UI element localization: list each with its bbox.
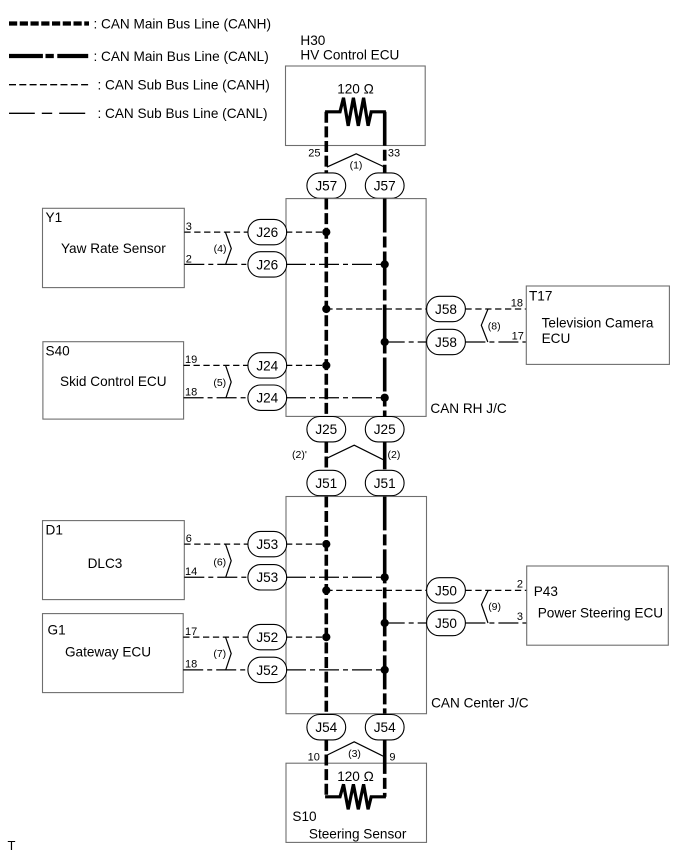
connector J52 (CANH) <box>248 624 287 649</box>
svg-text:CAN Center J/C: CAN Center J/C <box>431 695 529 710</box>
svg-text:S10: S10 <box>292 809 317 824</box>
connector J54 (CANH) <box>307 715 346 740</box>
svg-text:14: 14 <box>185 566 197 578</box>
connector J51 (CANH) <box>307 470 346 495</box>
wire CANH main bus J25 to J51 <box>324 442 328 469</box>
wire CANH sub J58 to T17 pin18 <box>465 308 526 310</box>
svg-text:Steering Sensor: Steering Sensor <box>309 826 407 841</box>
connector J58 (CANH) <box>427 296 466 321</box>
wire CANH sub D1 pin6 to J53 <box>184 543 248 545</box>
junction node J52-CANH on CANH bus <box>322 633 330 641</box>
junction node J58-CANH on CANH bus <box>322 305 330 313</box>
resistor 120 ohm inside S10 <box>325 784 386 809</box>
svg-text:3: 3 <box>186 221 192 233</box>
svg-text:(9): (9) <box>488 601 501 613</box>
wire CANL main bus J54 into S10 <box>383 740 387 797</box>
svg-text:J50: J50 <box>435 583 457 598</box>
wire CANL sub J53 to bus inside J/C <box>286 576 385 578</box>
chevron marker (7) on G1 wires <box>226 637 232 670</box>
chevron marker (2) between J25 and J51 <box>327 445 384 460</box>
legend CAN Sub Bus Line (CANH) sample + caption <box>9 78 270 93</box>
svg-text:J54: J54 <box>374 720 396 735</box>
wire CANL main bus vertical inside CAN RH J/C <box>383 199 387 417</box>
wire CANL sub bus to J50 inside J/C <box>385 622 427 624</box>
svg-text:(5): (5) <box>213 377 226 389</box>
D1 DLC3 box <box>43 521 185 600</box>
svg-text:(7): (7) <box>213 648 226 660</box>
wire CANL sub bus to J58 inside J/C <box>385 341 426 343</box>
svg-text:17: 17 <box>185 626 197 638</box>
H30 HV Control ECU box <box>286 66 426 146</box>
chevron marker (4) on Y1 wires <box>225 232 231 264</box>
svg-text:(2): (2) <box>388 449 401 461</box>
svg-text:33: 33 <box>388 147 400 159</box>
connector J53 (CANL) <box>248 565 287 590</box>
svg-text:J53: J53 <box>256 537 278 552</box>
svg-text:18: 18 <box>511 297 523 309</box>
connector J57 (CANH) <box>307 173 346 198</box>
svg-text:2: 2 <box>186 253 192 265</box>
connector J57 (CANL) <box>365 173 404 198</box>
chevron marker (6) on D1 wires <box>226 544 232 577</box>
junction node J53-CANL on CANL bus <box>381 573 389 581</box>
wire CANH sub J50 to P43 pin2 <box>465 589 526 591</box>
svg-text:6: 6 <box>186 533 192 545</box>
svg-text:3: 3 <box>517 611 523 623</box>
connector J53 (CANH) <box>248 531 287 556</box>
svg-text:Power Steering ECU: Power Steering ECU <box>538 606 663 621</box>
chevron marker (1) between pins 25 and 33 <box>327 154 383 167</box>
svg-text:(2)': (2)' <box>292 449 307 461</box>
svg-text:J53: J53 <box>256 570 278 585</box>
wire CANL main bus vertical inside CAN Center J/C <box>383 496 387 713</box>
svg-text:J57: J57 <box>315 179 337 194</box>
wire CANH sub bus to J58 inside J/C <box>326 308 426 310</box>
svg-text:ECU: ECU <box>542 331 571 346</box>
wire CANL sub J58 to T17 pin17 <box>465 341 526 343</box>
svg-text:D1: D1 <box>46 523 63 538</box>
svg-text:Yaw Rate Sensor: Yaw Rate Sensor <box>61 241 166 256</box>
legend CAN Sub Bus Line (CANL) sample + caption <box>9 106 268 121</box>
svg-text:Gateway ECU: Gateway ECU <box>65 645 151 660</box>
svg-text:: CAN Sub Bus Line (CANH): : CAN Sub Bus Line (CANH) <box>98 78 270 93</box>
connector J52 (CANL) <box>248 657 287 682</box>
Y1 Yaw Rate Sensor box <box>43 208 185 287</box>
legend CAN Main Bus Line (CANL) sample + caption <box>9 49 269 64</box>
wire CANL sub J26 to bus inside J/C <box>286 263 385 265</box>
svg-text:P43: P43 <box>534 584 558 599</box>
svg-text:CAN RH J/C: CAN RH J/C <box>430 401 506 416</box>
G1 Gateway ECU box <box>43 614 184 693</box>
chevron marker (5) on S40 wires <box>226 365 232 397</box>
connector J26 (CANL) <box>248 252 287 277</box>
wire CANL sub J52 to bus inside J/C <box>286 669 385 671</box>
svg-text:(8): (8) <box>488 321 501 333</box>
H30 HV Control ECU label <box>300 33 399 62</box>
svg-text:J50: J50 <box>435 616 457 631</box>
connector J50 (CANL) <box>427 610 466 635</box>
svg-text:25: 25 <box>308 147 320 159</box>
wire CANH sub J53 to bus inside J/C <box>286 543 326 545</box>
wire CANL sub Y1 pin2 to J26 <box>184 263 248 265</box>
svg-text:(6): (6) <box>213 556 226 568</box>
svg-text:J26: J26 <box>256 225 278 240</box>
wire CANH sub G1 pin17 to J52 <box>183 636 248 638</box>
svg-text:J57: J57 <box>374 179 396 194</box>
svg-text:(4): (4) <box>214 243 227 255</box>
svg-text:9: 9 <box>389 751 395 763</box>
svg-text:HV Control ECU: HV Control ECU <box>300 47 399 62</box>
wire CANL sub D1 pin14 to J53 <box>184 576 248 578</box>
svg-text:J24: J24 <box>256 358 278 373</box>
wire CANH sub J26 to bus inside J/C <box>286 231 326 233</box>
svg-text:J24: J24 <box>256 391 278 406</box>
svg-text:120 Ω: 120 Ω <box>337 769 374 784</box>
svg-text:(3): (3) <box>348 748 361 760</box>
connector J26 (CANH) <box>248 219 287 244</box>
junction node J26-CANH on CANH bus <box>322 228 330 236</box>
connector J54 (CANL) <box>365 715 404 740</box>
CAN RH J/C box <box>286 199 426 417</box>
wire CANL sub J50 to P43 pin3 <box>465 622 526 624</box>
chevron marker (8) on T17 wires <box>481 309 488 342</box>
wire CANL sub J24 to bus inside J/C <box>286 397 385 399</box>
svg-text:T17: T17 <box>529 289 552 304</box>
svg-text:Skid Control ECU: Skid Control ECU <box>60 374 167 389</box>
resistor 120 ohm inside H30 <box>325 98 386 126</box>
connector J24 (CANH) <box>248 353 287 378</box>
svg-text:G1: G1 <box>48 623 66 638</box>
S40 Skid Control ECU box <box>43 342 184 419</box>
svg-text:J52: J52 <box>256 663 278 678</box>
junction node J52-CANL on CANL bus <box>381 666 389 674</box>
wire CANH main bus J54 into S10 <box>324 740 328 797</box>
connector J51 (CANL) <box>365 470 404 495</box>
CAN Center J/C box <box>286 497 427 714</box>
junction node J50-CANH on CANH bus <box>322 586 330 594</box>
wire CANL sub S40 pin18 to J24 <box>184 397 248 399</box>
svg-text:J25: J25 <box>315 422 337 437</box>
svg-text:S40: S40 <box>46 344 71 359</box>
junction node J24-CANL on CANL bus <box>381 394 389 402</box>
wire CANH sub bus to J50 inside J/C <box>326 589 426 591</box>
svg-text:J51: J51 <box>315 476 337 491</box>
wire CANH sub S40 pin19 to J24 <box>184 364 248 366</box>
wire CANL main bus J25 to J51 <box>383 442 387 469</box>
junction node J50-CANL on CANL bus <box>381 619 389 627</box>
wire CANH main bus vertical inside CAN RH J/C <box>324 199 328 417</box>
connector J50 (CANH) <box>427 578 466 603</box>
legend CAN Main Bus Line (CANH) sample + caption <box>9 16 271 31</box>
svg-text:(1): (1) <box>350 160 363 172</box>
junction node J26-CANL on CANL bus <box>381 260 389 268</box>
svg-text:18: 18 <box>185 387 197 399</box>
svg-text:J25: J25 <box>374 422 396 437</box>
wire CANH main bus vertical H30-resistor to J57 <box>324 112 328 173</box>
svg-text:Television Camera: Television Camera <box>542 316 654 331</box>
svg-text:19: 19 <box>185 354 197 366</box>
svg-text:J58: J58 <box>435 302 457 317</box>
junction node J53-CANH on CANH bus <box>322 540 330 548</box>
svg-text:17: 17 <box>512 331 524 343</box>
svg-text:: CAN Main Bus Line (CANH): : CAN Main Bus Line (CANH) <box>94 16 272 31</box>
wire CANL sub G1 pin18 to J52 <box>183 669 248 671</box>
svg-text:: CAN Main Bus Line (CANL): : CAN Main Bus Line (CANL) <box>94 49 269 64</box>
svg-text:: CAN Sub Bus Line (CANL): : CAN Sub Bus Line (CANL) <box>98 106 268 121</box>
connector J24 (CANL) <box>248 385 287 410</box>
svg-text:J58: J58 <box>435 335 457 350</box>
svg-text:Y1: Y1 <box>46 210 63 225</box>
svg-text:J52: J52 <box>256 630 278 645</box>
wire CANL main bus vertical H30-resistor to J57 <box>383 112 387 173</box>
svg-text:10: 10 <box>308 751 320 763</box>
connector J58 (CANL) <box>427 329 466 354</box>
svg-text:T: T <box>8 838 16 853</box>
svg-text:DLC3: DLC3 <box>88 556 123 571</box>
svg-text:120 Ω: 120 Ω <box>337 82 374 97</box>
wire CANH sub Y1 pin3 to J26 <box>184 231 248 233</box>
junction node J58-CANL on CANL bus <box>381 338 389 346</box>
svg-text:J54: J54 <box>315 720 337 735</box>
junction node J24-CANH on CANH bus <box>322 361 330 369</box>
wire CANH sub J24 to bus inside J/C <box>286 364 326 366</box>
svg-text:J26: J26 <box>256 257 278 272</box>
connector J25 (CANL) <box>365 417 404 442</box>
P43 Power Steering ECU box <box>527 566 669 645</box>
chevron marker (9) on P43 wires <box>482 590 489 623</box>
svg-text:2: 2 <box>517 579 523 591</box>
S10 Steering Sensor box <box>286 763 427 842</box>
svg-text:H30: H30 <box>300 33 325 48</box>
wire CANH main bus vertical inside CAN Center J/C <box>324 496 328 713</box>
svg-text:J51: J51 <box>374 476 396 491</box>
T17 Television Camera ECU box <box>526 286 669 364</box>
svg-text:18: 18 <box>185 659 197 671</box>
wire CANH sub J52 to bus inside J/C <box>286 636 326 638</box>
chevron marker (3) between pins 10 and 9 <box>327 742 383 757</box>
connector J25 (CANH) <box>307 417 346 442</box>
